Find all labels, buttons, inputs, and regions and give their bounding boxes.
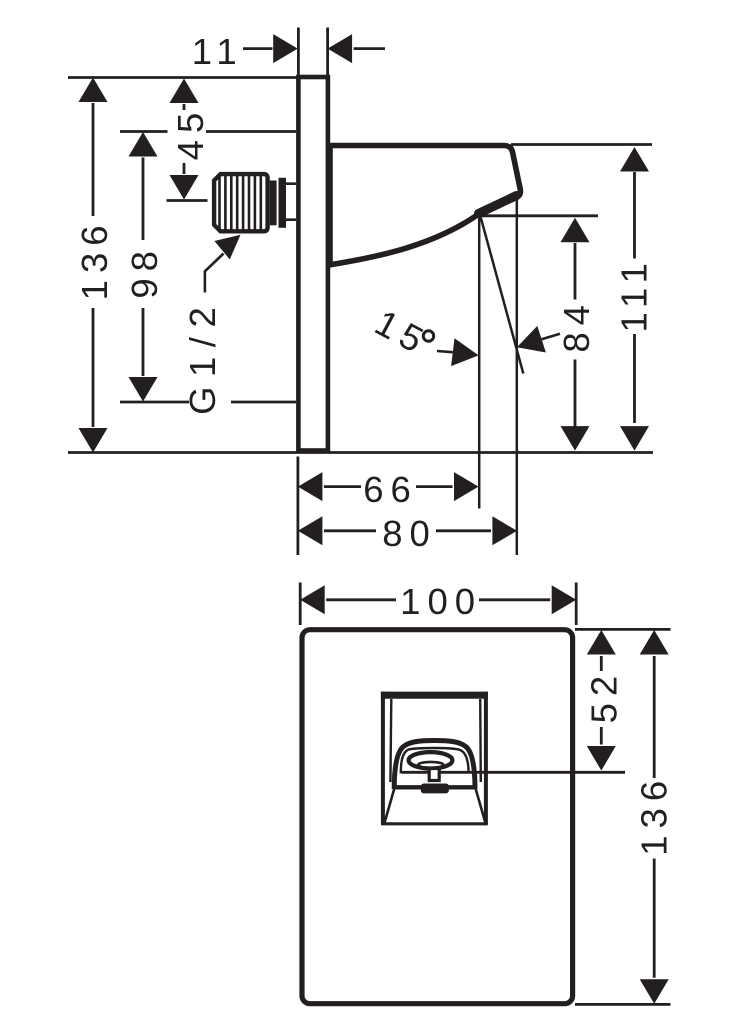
dimension 45 line bbox=[183, 104, 186, 174]
extension line: 98 bottom tick bbox=[120, 401, 296, 404]
inner wall lines bbox=[390, 699, 480, 782]
dimension 66 bbox=[324, 485, 453, 488]
front plate bbox=[302, 630, 573, 1004]
extension line right top bbox=[575, 628, 671, 631]
extension line: plate bottom baseline bbox=[68, 451, 653, 454]
G1/2 leader line bbox=[205, 254, 224, 293]
vertical projection line 80 bbox=[516, 198, 519, 556]
connector pipe lines to plate bbox=[286, 184, 296, 220]
dimension 98 line bbox=[142, 158, 145, 377]
connector nut bbox=[270, 181, 277, 226]
G1/2 leader arrowhead bbox=[214, 235, 240, 260]
threaded connector G1/2 body bbox=[214, 174, 268, 231]
dimension 100 bbox=[326, 598, 550, 601]
extension line below plate bbox=[296, 457, 299, 556]
connector threads bbox=[220, 175, 261, 232]
dimension 80 bbox=[324, 529, 491, 532]
aerator inner ring bbox=[418, 762, 443, 768]
arch outer bbox=[394, 741, 475, 790]
spout lip thick underside bbox=[479, 196, 517, 214]
extension line: 98 top tick bbox=[120, 130, 296, 133]
15 degree right arrow bbox=[542, 334, 560, 339]
dimension 136 (side view) line bbox=[92, 103, 95, 427]
extension line: spout top right bbox=[511, 143, 652, 146]
arch inner bbox=[401, 748, 469, 774]
extension line right bottom bbox=[575, 1003, 671, 1006]
dimension 84 arrows bbox=[561, 218, 590, 243]
dimension 11 left arrow + shaft bbox=[243, 47, 273, 50]
extension lines: 11 dim bbox=[298, 28, 327, 76]
extension line: 84 top bbox=[479, 214, 598, 217]
svg-text:66: 66 bbox=[363, 469, 418, 510]
bottom tab bbox=[421, 784, 449, 794]
floor line / leader to 52 bbox=[402, 771, 625, 774]
15 degree slant line bbox=[480, 216, 523, 374]
svg-text:52: 52 bbox=[583, 669, 624, 724]
svg-text:100: 100 bbox=[400, 581, 482, 622]
svg-text:98: 98 bbox=[124, 244, 165, 299]
dimension 136 arrows bbox=[79, 78, 108, 103]
dimension 11 right arrow + shaft bbox=[354, 47, 385, 50]
dimension 84 line bbox=[574, 243, 577, 428]
extension line: plate top bbox=[68, 76, 297, 79]
dimension 136 (front view) bbox=[653, 656, 656, 978]
extension line: 45 bottom tick bbox=[167, 199, 208, 202]
extension lines above front plate bbox=[300, 583, 576, 626]
baseline under arch bbox=[394, 785, 475, 789]
svg-text:11: 11 bbox=[192, 31, 244, 72]
dimension 52 bbox=[600, 656, 603, 745]
wall plate (side view) bbox=[298, 77, 328, 451]
perspective diagonals bbox=[385, 788, 486, 823]
dimension 111 line bbox=[633, 172, 636, 423]
svg-text:45: 45 bbox=[170, 106, 211, 161]
15 degree left arrow bbox=[437, 351, 453, 352]
svg-text:G1/2: G1/2 bbox=[182, 298, 223, 415]
spout body (side view) bbox=[330, 146, 520, 265]
stem bbox=[429, 769, 439, 781]
svg-text:111: 111 bbox=[613, 256, 654, 332]
svg-text:136: 136 bbox=[634, 774, 675, 856]
dimension 45 arrows bbox=[170, 79, 199, 104]
spout opening frame (front view) bbox=[383, 692, 486, 824]
svg-text:136: 136 bbox=[74, 218, 115, 300]
svg-text:84: 84 bbox=[556, 298, 597, 353]
svg-text:80: 80 bbox=[382, 513, 437, 554]
vertical projection line 66 bbox=[478, 216, 481, 509]
dimension 111 arrows bbox=[620, 147, 649, 172]
dimension 98 arrows bbox=[129, 132, 158, 157]
aerator outer ring bbox=[409, 752, 453, 768]
